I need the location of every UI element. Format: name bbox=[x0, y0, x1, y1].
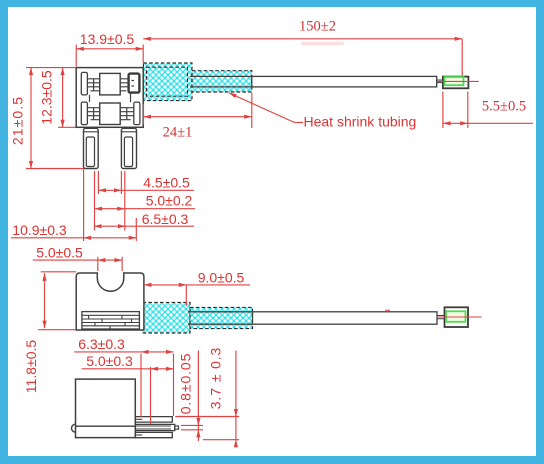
heat shrink tubing thin section (front view) bbox=[192, 71, 252, 92]
hidden crimp barrel (dashed, under tubing) bbox=[147, 67, 188, 96]
svg-text:11.8±0.5: 11.8±0.5 bbox=[23, 340, 39, 394]
dim 24 extension lines bbox=[144, 93, 252, 128]
dim 5.5 extension lines bbox=[443, 92, 468, 129]
body outline (bottom view) bbox=[76, 379, 136, 438]
svg-text:12.3±0.5: 12.3±0.5 bbox=[39, 70, 55, 125]
wire insulation (side view) bbox=[253, 312, 438, 324]
right blade leg (front view) bbox=[121, 128, 136, 168]
dim 3.7 extension lines bbox=[175, 417, 239, 440]
middle blade tab bbox=[175, 426, 179, 429]
dim 21 line bbox=[30, 68, 32, 169]
row 2 right clip comb bbox=[120, 108, 134, 120]
dim 0.8 extension lines bbox=[181, 425, 203, 429]
dim 5.0 notch line bbox=[98, 259, 122, 261]
dim 12.3 line bbox=[62, 68, 64, 128]
red centerline through terminal bbox=[437, 80, 479, 82]
heat shrink tubing large section (side view) bbox=[143, 302, 190, 333]
row 2 center cavity bbox=[100, 103, 121, 125]
dim 11.8 line bbox=[44, 273, 46, 328]
fuse tap body (side view) with U-notch bbox=[76, 273, 144, 330]
row 2 left clip comb bbox=[87, 108, 99, 120]
dim 6.3 line bbox=[141, 351, 174, 353]
dim 5.0 extension bbox=[150, 367, 152, 424]
row 2 left contact plate bbox=[81, 102, 87, 125]
small red mark on wire (side view) bbox=[385, 309, 390, 311]
dim 150 right extension bbox=[461, 39, 463, 76]
crimp terminal at wire end (front view) bbox=[443, 77, 469, 89]
row 1 left contact plate bbox=[81, 72, 87, 95]
bare conductor at wire end (front view) bbox=[437, 80, 443, 83]
svg-text:5.0±0.5: 5.0±0.5 bbox=[36, 244, 83, 260]
dim 13.9 line bbox=[76, 48, 143, 50]
dim 9.0 line bbox=[144, 284, 186, 286]
dim 12.3 bottom extension bbox=[58, 126, 76, 128]
svg-text:21±0.5: 21±0.5 bbox=[10, 96, 26, 145]
dim 150 line bbox=[143, 38, 462, 40]
tinned conductor green (side view) bbox=[446, 311, 466, 322]
svg-text:5.5±0.5: 5.5±0.5 bbox=[482, 99, 526, 115]
svg-text:Heat shrink tubing: Heat shrink tubing bbox=[304, 114, 417, 130]
svg-text:6.3±0.3: 6.3±0.3 bbox=[78, 336, 125, 352]
row 2 right contact plate bbox=[134, 102, 140, 125]
leader line for heat shrink label bbox=[229, 93, 295, 123]
wire edges under tubing (side view) bbox=[188, 312, 253, 324]
bare conductor at wire end (side view) bbox=[437, 316, 445, 319]
svg-text:4.5±0.5: 4.5±0.5 bbox=[143, 174, 190, 190]
body base split line bbox=[76, 425, 136, 427]
dim 13.9 extension lines bbox=[76, 45, 143, 67]
row 1 center cavity bbox=[100, 73, 121, 95]
dim 5.0 notch extension lines bbox=[98, 257, 122, 271]
row 1 right fuse clip (thick) bbox=[129, 74, 140, 93]
svg-text:24±1: 24±1 bbox=[163, 125, 193, 141]
svg-text:5.0±0.3: 5.0±0.3 bbox=[86, 353, 133, 369]
red centerline (side view) bbox=[437, 316, 482, 318]
middle blade bbox=[135, 424, 175, 430]
fuse tap body (front view) bbox=[76, 68, 143, 128]
right leg shoulder line bbox=[121, 131, 136, 133]
svg-text:5.0±0.2: 5.0±0.2 bbox=[146, 193, 193, 209]
blade stack (side view) bbox=[82, 312, 139, 329]
svg-text:0.8±0.05: 0.8±0.05 bbox=[178, 353, 194, 415]
upper blade bbox=[135, 417, 172, 423]
left bump bbox=[72, 424, 76, 432]
dim 6.5 line bbox=[94, 225, 126, 227]
dim 6.3 extensions bbox=[141, 354, 174, 418]
inter-row links bbox=[90, 93, 131, 103]
row 1 right clip comb bbox=[120, 79, 128, 91]
heat shrink tubing large section (front view) bbox=[144, 63, 193, 101]
left blade leg (front view) bbox=[84, 128, 99, 168]
svg-text:10.9±0.3: 10.9±0.3 bbox=[12, 222, 67, 238]
dim 0.8 arrows bbox=[197, 418, 199, 425]
wire edges under tubing (front view) bbox=[190, 76, 252, 87]
left leg shoulder line bbox=[84, 131, 99, 133]
left leg inner slot bbox=[86, 137, 94, 167]
dim 9.0 extension bbox=[185, 285, 187, 306]
svg-text:6.5±0.3: 6.5±0.3 bbox=[142, 211, 189, 227]
svg-text:9.0±0.5: 9.0±0.5 bbox=[198, 269, 245, 285]
dim 24 line bbox=[144, 116, 252, 118]
dim 21 extension lines bbox=[26, 68, 84, 169]
wire insulation (front view) bbox=[252, 76, 437, 87]
lower blade bbox=[135, 432, 172, 437]
tinned conductor (green) bbox=[445, 77, 464, 85]
dim 4.5 line bbox=[98, 189, 121, 191]
svg-text:3.7 ± 0.3: 3.7 ± 0.3 bbox=[208, 347, 224, 410]
dim 11.8 extension lines bbox=[38, 272, 76, 330]
faint erased text remnant under 150±2 bbox=[301, 42, 344, 46]
row 1 left clip comb bbox=[87, 79, 99, 91]
svg-text:150±2: 150±2 bbox=[299, 19, 336, 35]
dim 10.9 line bbox=[84, 237, 137, 239]
row 1 right clip inner slot bbox=[132, 81, 135, 87]
dim 3.7 arrows bbox=[235, 411, 237, 417]
dim 5.5 line bbox=[443, 122, 468, 124]
dim 5.0 line bbox=[95, 208, 125, 210]
crimp terminal (side view) bbox=[445, 307, 469, 327]
svg-text:13.9±0.5: 13.9±0.5 bbox=[80, 31, 135, 47]
heat shrink tubing thin section (side view) bbox=[190, 307, 253, 328]
dim 5.0 line bbox=[151, 368, 174, 370]
blade dims extension lines bbox=[84, 169, 137, 242]
right leg inner slot bbox=[124, 137, 132, 167]
